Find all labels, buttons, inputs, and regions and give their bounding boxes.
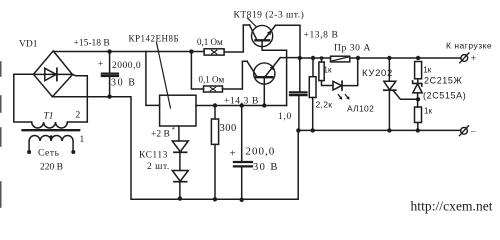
svg-text:1к: 1к <box>324 66 332 75</box>
transistor Q1 base bar <box>255 39 269 41</box>
thyristor KU202 cathode bar <box>384 89 396 91</box>
svg-text:2000,0: 2000,0 <box>112 61 141 71</box>
svg-text:(2С515А): (2С515А) <box>423 90 466 100</box>
transformer T1 primary winding (4 humps up) <box>29 136 73 152</box>
svg-text:0,1 Ом: 0,1 Ом <box>197 37 223 47</box>
svg-text:VD1: VD1 <box>19 40 38 50</box>
wire: AC right from bridge right vertex down to transformer secondary <box>73 75 88 122</box>
resistor R1 0,1 Om body <box>204 49 224 55</box>
svg-text:К нагрузке: К нагрузке <box>446 41 492 51</box>
svg-text:+14,3 В: +14,3 В <box>224 97 259 107</box>
resistor R3 300 bottom lead <box>214 144 216 199</box>
transistor Q1 base lead down <box>262 42 287 106</box>
wire: R1 to T1 collector <box>224 25 250 52</box>
fuse diagonal <box>332 57 349 61</box>
node: 300 resistor junction <box>213 103 217 107</box>
transistor Q2 emitter lead <box>266 58 281 77</box>
resistor R2 X mark <box>210 87 215 91</box>
capacitor C2 bottom lead <box>241 167 243 200</box>
transistor Q2 emitter arrow <box>270 65 275 71</box>
wire: fuse to plus terminal <box>350 57 461 59</box>
resistor R4 2,2k bottom lead <box>312 98 314 131</box>
transistor Q2 base lead down <box>263 78 265 105</box>
thyristor KU202 triangle <box>384 81 396 90</box>
winding joint dot <box>50 135 53 138</box>
capacitor C1 bottom lead <box>109 77 111 97</box>
primary terminal dot left <box>27 150 31 154</box>
svg-text:30 В: 30 В <box>111 78 137 89</box>
svg-text:2: 2 <box>76 111 81 121</box>
terminal plus slash <box>460 53 469 63</box>
svg-text:1к: 1к <box>424 107 432 116</box>
node: minus rail / C3 corner junction <box>296 128 300 132</box>
svg-text:*: * <box>172 126 176 134</box>
wire: Q1 emitter to +13,8V corner <box>276 25 300 58</box>
svg-text:+15-18 В: +15-18 В <box>74 39 110 49</box>
wire: regulator output +14,3V <box>196 105 287 107</box>
bridge rectifier VD1 diamond <box>34 51 73 97</box>
capacitor C1 plates <box>102 72 118 74</box>
LED AL102 triangle <box>333 81 342 90</box>
transistor Q2 KT819 circle <box>254 63 275 84</box>
transformer T1 secondary winding (3 humps down) <box>32 122 68 128</box>
capacitor C2 plates <box>234 161 252 163</box>
diode VD3 KS113 #2 bar <box>174 181 187 183</box>
wire: Q2 emitter to +13,8V rail <box>280 57 299 59</box>
svg-text:1: 1 <box>80 135 85 145</box>
svg-text:КС113: КС113 <box>139 151 168 161</box>
resistor R6 1k body (upper right) <box>415 62 422 79</box>
svg-text:1,0: 1,0 <box>278 112 292 122</box>
node: C2 ground junction <box>240 198 244 202</box>
node: R3 ground junction <box>213 197 217 201</box>
resistor R1 X mark <box>212 50 217 54</box>
svg-text:2С215Ж: 2С215Ж <box>424 76 463 86</box>
thyristor KU202 gate lead <box>393 90 418 99</box>
svg-text:+: + <box>471 54 477 65</box>
wire: +13,8V rail to fuse <box>300 57 331 59</box>
transistor Q1 collector lead <box>249 25 256 39</box>
svg-text:КТ819 (2-3 шт.): КТ819 (2-3 шт.) <box>234 10 305 21</box>
thyristor KU202 anode lead <box>388 58 390 81</box>
transformer core <box>23 129 80 131</box>
capacitor C1 2000,0 top lead <box>109 52 111 73</box>
wire KS113 #2 to ground rail <box>179 182 181 199</box>
svg-text:−: − <box>471 127 477 138</box>
leader line KR142EN8B <box>157 43 171 109</box>
svg-text:+2 В: +2 В <box>151 130 170 140</box>
terminal plus circle <box>461 55 468 62</box>
bridge diode cathode bar <box>56 68 58 80</box>
svg-text:КУ202: КУ202 <box>362 68 393 79</box>
resistor R5 1k body <box>319 62 324 81</box>
wire: R7 to minus rail <box>417 123 419 131</box>
leader line KT819 <box>248 18 257 27</box>
resistor R4 2,2k body <box>309 77 316 98</box>
svg-text:+: + <box>230 148 236 160</box>
wire: rail branch down to R2 <box>191 52 203 89</box>
wire: zener to gate node and R7 <box>417 93 419 107</box>
node: KS113 ground junction <box>178 196 182 200</box>
resistor R2 0,1 Om body <box>204 86 223 92</box>
primary terminal dot right <box>71 150 75 154</box>
transistor Q1 emitter lead <box>265 25 276 39</box>
wire: AC left from bridge left vertex down to transformer secondary <box>14 74 34 122</box>
svg-text:Т1: Т1 <box>44 112 54 122</box>
node: gate junction <box>416 97 420 101</box>
svg-text:2 шт.: 2 шт. <box>147 162 170 172</box>
diode VD2 KS113 #1 bar <box>174 151 187 153</box>
resistor R3 300 top lead <box>214 106 216 120</box>
wire: bridge minus output along y=96.6 then down to ground rail <box>52 97 298 200</box>
capacitor C3 bottom lead <box>298 96 300 130</box>
svg-text:1к: 1к <box>423 66 431 75</box>
svg-text:220 В: 220 В <box>40 163 63 173</box>
svg-text:2,2к: 2,2к <box>316 100 333 110</box>
transistor Q2 base bar <box>256 76 272 78</box>
node: rail / R2 branch junction <box>189 49 193 53</box>
node: LED return junction <box>356 56 360 60</box>
node: C2 junction <box>240 103 244 107</box>
capacitor C2 200,0 top lead <box>241 106 243 162</box>
wire: regulator input from rail <box>146 52 160 106</box>
svg-text:КР142ЕН8Б: КР142ЕН8Б <box>129 34 180 44</box>
terminal minus circle <box>461 127 468 134</box>
diode VD2 KS113 #1 triangle <box>172 141 188 152</box>
svg-text:Сеть: Сеть <box>38 149 60 159</box>
svg-text:Пр 30 А: Пр 30 А <box>334 44 371 54</box>
resistor R3 300 body <box>211 119 218 144</box>
resistor R7 1k body (lower right) <box>415 107 422 123</box>
transistor Q2 collector lead <box>247 61 257 76</box>
transistor Q1 KT819 circle <box>252 25 273 46</box>
scan edge artifact <box>0 62 2 207</box>
thyristor KU202 cathode lead <box>388 90 390 130</box>
wire: regulator ground stub to KS113 <box>178 126 180 141</box>
svg-text:АЛ102: АЛ102 <box>347 104 374 114</box>
bridge diode line <box>34 73 73 75</box>
transistor Q1 emitter arrow <box>267 30 272 35</box>
node: thyristor anode junction <box>387 56 391 60</box>
node: zener chain top junction <box>416 56 420 60</box>
wire: R6 to zener <box>417 79 419 83</box>
svg-text:0,1 Ом: 0,1 Ом <box>199 75 225 85</box>
op-amp U1 regulator KR142EN8B box <box>160 95 196 126</box>
wire: LED cathode up to rail <box>343 58 358 86</box>
wire: secondary right segment <box>67 121 87 123</box>
LED AL102 cathode bar <box>341 81 343 90</box>
node: T2 base junction <box>262 103 266 107</box>
resistor R5 1k bottom lead to LED <box>322 81 334 86</box>
svg-text:+13,8 В: +13,8 В <box>304 31 339 41</box>
node: 2,2k top junction <box>311 56 315 60</box>
zener diode VD4 2S215Zh bar with hooks <box>413 81 422 86</box>
node: rail junction <box>298 56 302 60</box>
LED AL102 arrows <box>338 95 341 99</box>
wire: top +15-18V rail <box>53 51 204 53</box>
bridge diode triangle <box>45 68 56 80</box>
resistor R5 1k top lead <box>321 58 323 62</box>
terminal minus slash <box>460 126 469 136</box>
wire: minus rail <box>298 129 461 131</box>
svg-text:+: + <box>98 60 103 70</box>
capacitor C3 1,0 top lead <box>299 58 301 91</box>
node: rail / C1 junction <box>107 49 111 53</box>
node: R7 bottom junction <box>416 128 420 132</box>
node: C1 minus junction <box>107 94 111 98</box>
svg-text:200,0: 200,0 <box>246 146 276 158</box>
wire: R2 to T2 collector <box>223 61 248 89</box>
node: thyristor cathode junction <box>387 128 391 132</box>
diode VD3 KS113 #2 triangle <box>172 171 188 182</box>
svg-text:http://cxem.net: http://cxem.net <box>411 198 493 213</box>
node: 2,2k bottom junction <box>311 128 315 132</box>
resistor R4 2,2k top lead <box>312 58 314 77</box>
svg-text:300: 300 <box>220 123 237 134</box>
capacitor C3 plates <box>290 91 307 93</box>
svg-text:30 В: 30 В <box>253 162 279 173</box>
fuse Pr 30A body <box>331 56 350 62</box>
wire between KS113 diodes <box>179 153 181 171</box>
zener diode VD4 triangle <box>413 84 422 93</box>
node: 1k top junction <box>320 56 324 60</box>
